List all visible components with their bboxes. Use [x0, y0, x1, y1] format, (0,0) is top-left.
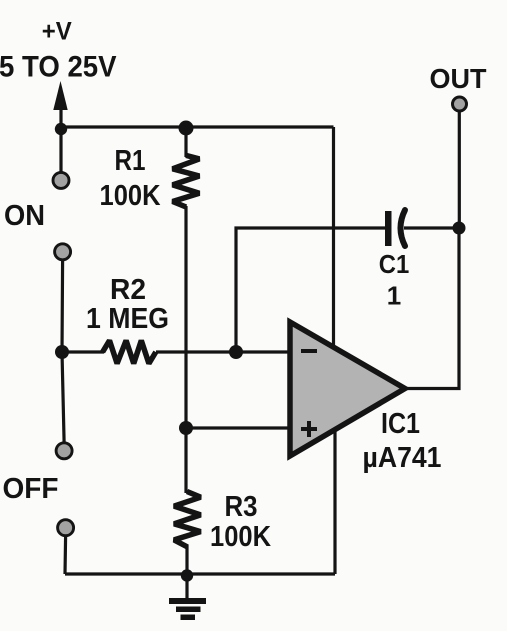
svg-text:1: 1 — [387, 281, 401, 311]
svg-text:1 MEG: 1 MEG — [86, 303, 169, 335]
wire V- from op-amp bottom to ground rail — [333, 430, 336, 574]
resistor R3 — [174, 492, 201, 548]
switch contact D — [58, 520, 74, 536]
svg-text:OFF: OFF — [3, 473, 59, 505]
svg-text:5 TO 25V: 5 TO 25V — [0, 50, 117, 83]
wire rail to switch contact A — [59, 127, 62, 172]
svg-text:µA741: µA741 — [363, 442, 442, 474]
wire bottom rail — [65, 572, 335, 575]
wire output node down and left to op-amp output — [404, 228, 459, 389]
svg-text:R1: R1 — [115, 145, 146, 177]
svg-text:R3: R3 — [225, 491, 258, 523]
svg-text:+V: +V — [42, 18, 72, 46]
wire V+ drop to op-amp top — [332, 127, 335, 348]
ground — [169, 581, 206, 620]
svg-text:R2: R2 — [110, 274, 146, 306]
op-amp minus sign — [301, 349, 317, 353]
wire top rail — [61, 125, 334, 128]
switch contact C — [56, 443, 72, 459]
wire feedback riser — [236, 228, 385, 352]
OUT terminal — [453, 97, 467, 111]
svg-text:100K: 100K — [210, 521, 271, 553]
wire output node up to OUT terminal — [458, 111, 461, 228]
switch contact A — [53, 172, 69, 188]
svg-text:ON: ON — [4, 200, 45, 232]
wire R2 row: left node to inverting input — [62, 350, 104, 353]
svg-text:OUT: OUT — [430, 63, 487, 94]
node junction output/C1 — [453, 222, 466, 235]
op-amp U1 triangle — [290, 322, 405, 456]
switch contact B — [55, 244, 71, 260]
node junction R2 left — [55, 345, 69, 359]
resistor R1 — [173, 155, 200, 207]
wire R1/R3 divider line — [184, 127, 187, 157]
svg-text:IC1: IC1 — [381, 408, 420, 440]
node junction top-left — [55, 123, 67, 135]
wire switch B down to OFF contact C — [62, 260, 64, 442]
svg-text:C1: C1 — [379, 249, 410, 279]
wire non-inverting input — [186, 426, 290, 429]
capacitor C1 — [385, 210, 405, 246]
resistor R2 — [103, 341, 156, 364]
node junction R1 top — [179, 121, 194, 136]
node junction ground — [181, 569, 193, 581]
svg-text:100K: 100K — [100, 180, 161, 212]
supply arrowhead — [53, 81, 67, 110]
wire supply arrow shaft — [59, 95, 62, 127]
node junction inverting input — [229, 345, 243, 359]
node junction non-inverting input — [179, 421, 193, 435]
op-amp plus sign — [301, 421, 317, 437]
wire switch D down to bottom rail — [63, 536, 67, 574]
wire C1 right plate to output node — [404, 226, 459, 229]
